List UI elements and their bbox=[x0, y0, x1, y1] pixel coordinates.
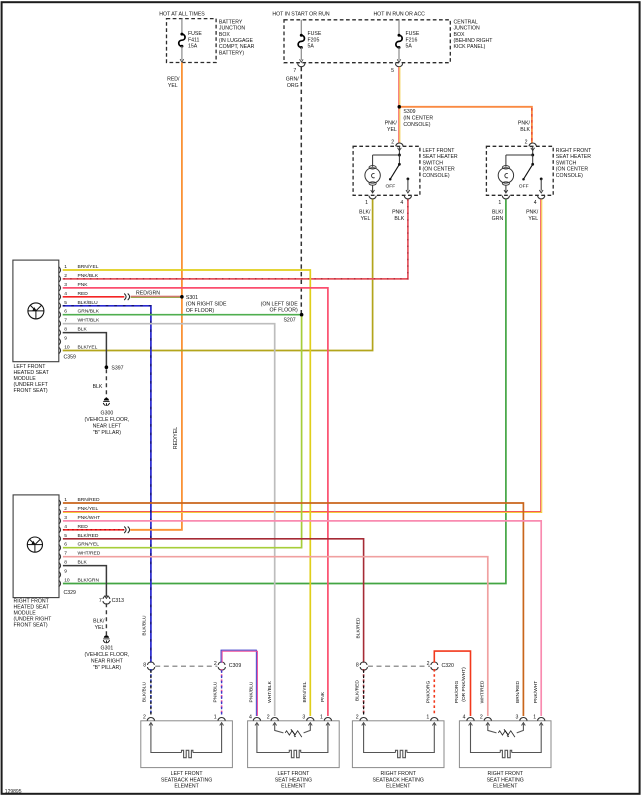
svg-text:7: 7 bbox=[64, 551, 67, 557]
connector C320 pin 2 bbox=[427, 661, 454, 670]
svg-text:S301: S301 bbox=[186, 295, 198, 301]
battery junction box B1 bbox=[159, 11, 254, 62]
svg-text:(IN LUGGAGE: (IN LUGGAGE bbox=[219, 38, 254, 44]
wire RED/GRN (inline connector to S301) bbox=[131, 290, 181, 297]
svg-text:WHT/RED: WHT/RED bbox=[479, 680, 485, 703]
wire RED (right module pin 4) bbox=[63, 527, 130, 534]
svg-text:C313: C313 bbox=[112, 598, 125, 604]
svg-text:7: 7 bbox=[293, 68, 296, 74]
svg-text:5: 5 bbox=[64, 533, 67, 539]
svg-text:GRN: GRN bbox=[492, 216, 504, 222]
svg-text:FUSE: FUSE bbox=[406, 31, 420, 37]
svg-text:F205: F205 bbox=[308, 37, 320, 43]
wire PNK/BLU (C309 pin 2 jumper to LF seat element pin 4) bbox=[221, 650, 257, 716]
wire BLK (S397 to ground G300) bbox=[93, 369, 107, 398]
LF seatback heating element E1 bbox=[141, 714, 233, 789]
wire PNK/BLK (left switch pin 4 to left module pin 2) bbox=[63, 199, 408, 279]
left front heated seat module M1 bbox=[13, 260, 76, 394]
svg-text:BATTERY): BATTERY) bbox=[219, 50, 244, 56]
svg-text:BLK: BLK bbox=[394, 216, 404, 222]
fuse F411 15A bbox=[179, 19, 203, 63]
svg-text:4: 4 bbox=[463, 714, 466, 720]
svg-text:RED: RED bbox=[78, 291, 89, 297]
svg-text:WHT/BLK: WHT/BLK bbox=[78, 318, 100, 324]
svg-text:SWITCH: SWITCH bbox=[423, 160, 444, 166]
svg-text:PNK/: PNK/ bbox=[392, 210, 405, 216]
svg-text:129895: 129895 bbox=[5, 789, 22, 795]
RF seat heating element E4 bbox=[459, 714, 551, 789]
fuse F216 5A bbox=[396, 20, 420, 63]
svg-text:BLK: BLK bbox=[520, 127, 530, 133]
svg-text:RIGHT FRONT: RIGHT FRONT bbox=[381, 771, 417, 777]
wire BRN/RED (right module pin 1 to RF seat element pin 3) bbox=[63, 503, 524, 716]
svg-text:YEL: YEL bbox=[168, 83, 178, 89]
svg-text:PNK/BLU: PNK/BLU bbox=[249, 681, 255, 702]
svg-text:LEFT FRONT: LEFT FRONT bbox=[171, 771, 204, 777]
svg-text:6: 6 bbox=[64, 542, 67, 548]
svg-text:WHT/BLK: WHT/BLK bbox=[267, 680, 273, 702]
svg-text:GRN/BLK: GRN/BLK bbox=[78, 309, 100, 315]
central junction box C1 bbox=[272, 11, 493, 62]
splice S397 bbox=[105, 365, 124, 371]
RF seatback heating element E3 bbox=[352, 714, 444, 789]
right front heated seat module M2 bbox=[13, 495, 76, 629]
svg-text:2: 2 bbox=[143, 714, 146, 720]
svg-text:BLK: BLK bbox=[78, 327, 88, 333]
wire GRN/ORG (fuse F205 to S207) bbox=[286, 67, 302, 314]
svg-text:F411: F411 bbox=[188, 37, 200, 43]
svg-text:RED/GRN: RED/GRN bbox=[136, 290, 160, 296]
wire BLK/RED (C320 pin 8 to RF seatback element pin 2, dashed) bbox=[354, 669, 363, 716]
svg-text:CONSOLE): CONSOLE) bbox=[403, 122, 430, 128]
svg-text:HOT IN RUN OR ACC: HOT IN RUN OR ACC bbox=[373, 11, 425, 17]
svg-text:CONSOLE): CONSOLE) bbox=[423, 173, 450, 179]
wire BLK/BLU (C309 pin 8 to LF seatback element pin 2) bbox=[142, 669, 151, 716]
svg-text:S397: S397 bbox=[111, 366, 123, 372]
svg-text:RIGHT FRONT: RIGHT FRONT bbox=[556, 148, 592, 154]
svg-text:8: 8 bbox=[143, 663, 146, 669]
svg-text:HOT IN START OR RUN: HOT IN START OR RUN bbox=[272, 11, 330, 17]
svg-text:BLK/RED: BLK/RED bbox=[355, 617, 361, 638]
svg-text:YEL: YEL bbox=[361, 216, 371, 222]
svg-text:(ON CENTER: (ON CENTER bbox=[556, 167, 589, 173]
svg-text:ELEMENT: ELEMENT bbox=[174, 784, 199, 790]
svg-text:OFF: OFF bbox=[519, 184, 529, 190]
svg-text:ELEMENT: ELEMENT bbox=[281, 784, 306, 790]
ground G300 bbox=[85, 398, 130, 436]
svg-text:3: 3 bbox=[302, 714, 305, 720]
svg-text:BRN/RED: BRN/RED bbox=[515, 681, 521, 703]
wire BLK/BLU (left module pin 5 to C309 pin 8) bbox=[63, 306, 151, 663]
svg-text:2: 2 bbox=[427, 661, 430, 667]
svg-text:10: 10 bbox=[64, 345, 70, 351]
svg-text:SEAT HEATING: SEAT HEATING bbox=[487, 777, 524, 783]
svg-text:4: 4 bbox=[249, 714, 252, 720]
svg-text:PNK/BLK: PNK/BLK bbox=[78, 273, 99, 279]
svg-text:CENTRAL: CENTRAL bbox=[454, 19, 478, 25]
svg-text:9: 9 bbox=[64, 336, 67, 342]
wire PNK/YEL (right switch pin 4 to right module pin 2) bbox=[63, 199, 542, 512]
svg-text:4: 4 bbox=[64, 524, 67, 530]
svg-text:10: 10 bbox=[64, 578, 70, 584]
svg-text:(IN CENTER: (IN CENTER bbox=[403, 116, 433, 122]
svg-text:BLK: BLK bbox=[78, 560, 88, 566]
svg-text:BLK/YEL: BLK/YEL bbox=[78, 345, 98, 351]
svg-text:8: 8 bbox=[64, 327, 67, 333]
svg-text:PNK/: PNK/ bbox=[385, 121, 398, 127]
svg-text:RIGHT FRONT: RIGHT FRONT bbox=[488, 771, 524, 777]
svg-text:RED/: RED/ bbox=[167, 77, 180, 83]
svg-text:(OR PNK/WHT): (OR PNK/WHT) bbox=[461, 667, 467, 702]
svg-text:2: 2 bbox=[267, 714, 270, 720]
splice S207 bbox=[261, 301, 304, 323]
svg-text:4: 4 bbox=[64, 291, 67, 297]
svg-text:SEATBACK HEATING: SEATBACK HEATING bbox=[372, 777, 423, 783]
svg-text:BLK/BLU: BLK/BLU bbox=[142, 615, 148, 636]
svg-text:G300: G300 bbox=[101, 411, 114, 417]
svg-text:PNK/ORG: PNK/ORG bbox=[454, 681, 460, 704]
svg-text:2: 2 bbox=[64, 273, 67, 279]
svg-text:PNK/: PNK/ bbox=[518, 121, 531, 127]
connector C309 pin 8 bbox=[143, 662, 154, 670]
svg-text:2: 2 bbox=[480, 714, 483, 720]
svg-text:JUNCTION: JUNCTION bbox=[219, 26, 245, 32]
svg-text:4: 4 bbox=[534, 200, 537, 206]
svg-text:CONSOLE): CONSOLE) bbox=[556, 173, 583, 179]
svg-text:6: 6 bbox=[64, 309, 67, 315]
connector C320 dashed face bbox=[368, 665, 430, 667]
svg-text:(BEHIND RIGHT: (BEHIND RIGHT bbox=[454, 38, 494, 44]
connector C320 pin 8 bbox=[356, 662, 367, 670]
svg-text:1: 1 bbox=[214, 714, 217, 720]
svg-text:3: 3 bbox=[516, 714, 519, 720]
svg-text:15A: 15A bbox=[188, 44, 198, 50]
svg-text:2: 2 bbox=[525, 140, 528, 146]
svg-text:BLK/: BLK/ bbox=[359, 210, 371, 216]
svg-text:RED/YEL: RED/YEL bbox=[173, 427, 179, 449]
svg-text:5A: 5A bbox=[308, 44, 315, 50]
wire BLK/YEL (left switch pin 1 to left module pin 10) bbox=[63, 199, 373, 350]
svg-text:OFF: OFF bbox=[386, 184, 396, 190]
svg-text:1: 1 bbox=[320, 714, 323, 720]
svg-text:5: 5 bbox=[391, 68, 394, 74]
svg-text:S309: S309 bbox=[403, 109, 415, 115]
svg-text:2: 2 bbox=[64, 506, 67, 512]
svg-text:BOX: BOX bbox=[454, 32, 465, 38]
ground G301 bbox=[85, 635, 130, 671]
svg-text:4: 4 bbox=[400, 200, 403, 206]
svg-text:S207: S207 bbox=[283, 318, 295, 324]
svg-text:BLK: BLK bbox=[93, 384, 103, 390]
svg-text:C320: C320 bbox=[442, 663, 455, 669]
svg-text:PNK/WHT: PNK/WHT bbox=[78, 515, 101, 521]
wire PNK (left module pin 3 to LF seat element pin 1) bbox=[63, 288, 328, 716]
svg-text:BLK/BLU: BLK/BLU bbox=[78, 300, 99, 306]
svg-text:GRN/YEL: GRN/YEL bbox=[78, 542, 100, 548]
svg-text:7: 7 bbox=[64, 318, 67, 324]
svg-text:OF FLOOR): OF FLOOR) bbox=[186, 308, 215, 314]
svg-text:LEFT FRONT: LEFT FRONT bbox=[277, 771, 310, 777]
wire RED (left module pin 4) bbox=[63, 294, 130, 301]
svg-text:PNK/: PNK/ bbox=[526, 210, 539, 216]
svg-text:KICK PANEL): KICK PANEL) bbox=[454, 44, 486, 50]
svg-text:YEL: YEL bbox=[95, 625, 105, 631]
svg-text:NEAR RIGHT: NEAR RIGHT bbox=[91, 658, 124, 664]
svg-text:PNK/ORG: PNK/ORG bbox=[426, 681, 432, 704]
svg-text:3: 3 bbox=[64, 515, 67, 521]
svg-text:BOX: BOX bbox=[219, 32, 230, 38]
svg-text:2: 2 bbox=[214, 661, 217, 667]
svg-text:SWITCH: SWITCH bbox=[556, 160, 577, 166]
svg-text:JUNCTION: JUNCTION bbox=[454, 26, 480, 32]
svg-text:COMPT, NEAR: COMPT, NEAR bbox=[219, 44, 255, 50]
wire WHT/RED (right module pin 7 to RF seat element pin 2) bbox=[63, 557, 488, 716]
fuse F205 5A bbox=[298, 20, 322, 63]
svg-text:"B" PILLAR): "B" PILLAR) bbox=[93, 430, 121, 436]
connector C313 pin 7 bbox=[99, 596, 124, 605]
svg-text:BLK/GRN: BLK/GRN bbox=[78, 578, 100, 584]
wire BRN/YEL (left module pin 1 to LF seat element pin 3) bbox=[63, 270, 311, 716]
svg-text:(ON RIGHT SIDE: (ON RIGHT SIDE bbox=[186, 302, 227, 308]
svg-text:F216: F216 bbox=[406, 37, 418, 43]
svg-text:YEL: YEL bbox=[528, 216, 538, 222]
svg-text:(ON CENTER: (ON CENTER bbox=[423, 167, 456, 173]
svg-text:2: 2 bbox=[391, 140, 394, 146]
svg-text:(ON LEFT SIDE: (ON LEFT SIDE bbox=[261, 301, 299, 307]
left front seat heater switch SW1 bbox=[353, 140, 458, 206]
svg-text:1: 1 bbox=[64, 497, 67, 503]
svg-text:NEAR LEFT: NEAR LEFT bbox=[93, 423, 122, 429]
svg-text:SEATBACK HEATING: SEATBACK HEATING bbox=[161, 777, 212, 783]
svg-text:5: 5 bbox=[64, 300, 67, 306]
wire GRN/BLK (left module pin 6 to S207) bbox=[63, 314, 301, 316]
svg-text:BLK/BLU: BLK/BLU bbox=[142, 681, 148, 702]
svg-text:C329: C329 bbox=[64, 590, 77, 596]
svg-text:PNK/BLU: PNK/BLU bbox=[212, 681, 218, 702]
svg-text:FUSE: FUSE bbox=[308, 31, 322, 37]
wire BLK/RED (right module pin 5 to C320 pin 8) bbox=[63, 539, 364, 663]
svg-text:SEAT HEATING: SEAT HEATING bbox=[275, 777, 312, 783]
svg-text:SEAT HEATER: SEAT HEATER bbox=[423, 154, 458, 160]
svg-text:(VEHICLE FLOOR,: (VEHICLE FLOOR, bbox=[85, 417, 130, 423]
svg-text:2: 2 bbox=[356, 714, 359, 720]
wire RED/YEL (fuse F411 to S301 to right module pin 4) bbox=[130, 63, 182, 530]
splice S309 bbox=[398, 105, 434, 128]
right front seat heater switch SW2 bbox=[486, 140, 592, 206]
wire PNK/YEL (fuse F216 to S309 to left switch pin 2) bbox=[385, 67, 400, 143]
svg-text:GRN/: GRN/ bbox=[286, 77, 300, 83]
svg-text:1: 1 bbox=[498, 200, 501, 206]
CJB pin 7 connector bbox=[293, 63, 304, 73]
wire PNK/BLK (S309 to right switch pin 2) bbox=[401, 107, 532, 143]
splice S301 bbox=[180, 295, 227, 314]
svg-text:ELEMENT: ELEMENT bbox=[386, 784, 411, 790]
wire BLK/GRN (right switch pin 1 to right module pin 10) bbox=[63, 199, 506, 583]
svg-text:C359: C359 bbox=[64, 354, 77, 360]
svg-text:ORG: ORG bbox=[287, 83, 299, 89]
svg-text:PNK: PNK bbox=[78, 282, 89, 288]
svg-text:BLK/: BLK/ bbox=[492, 210, 504, 216]
svg-text:BLK/: BLK/ bbox=[93, 618, 105, 624]
svg-text:9: 9 bbox=[64, 569, 67, 575]
svg-text:PNK/WHT: PNK/WHT bbox=[533, 681, 539, 704]
svg-text:BRN/YEL: BRN/YEL bbox=[302, 681, 308, 702]
wire WHT/BLK (left module pin 7 to LF seat element pin 2) bbox=[63, 324, 275, 716]
wire BLK/YEL (C313 to ground G301) bbox=[93, 603, 106, 636]
svg-text:ELEMENT: ELEMENT bbox=[493, 784, 518, 790]
svg-text:PNK: PNK bbox=[320, 691, 326, 702]
wire BLK (left module pin 8 to S397) bbox=[63, 333, 107, 366]
connector C309 dashed face bbox=[155, 665, 217, 667]
svg-text:1: 1 bbox=[533, 714, 536, 720]
svg-text:1: 1 bbox=[64, 264, 67, 270]
svg-text:3: 3 bbox=[64, 282, 67, 288]
svg-text:G301: G301 bbox=[101, 646, 114, 652]
svg-text:(VEHICLE FLOOR,: (VEHICLE FLOOR, bbox=[85, 652, 130, 658]
svg-text:OF FLOOR): OF FLOOR) bbox=[269, 308, 298, 314]
svg-text:LEFT FRONT: LEFT FRONT bbox=[423, 148, 456, 154]
wire BLK (right module pin 8 to C313) bbox=[63, 566, 107, 597]
svg-text:BLK/RED: BLK/RED bbox=[354, 680, 360, 701]
svg-text:FRONT SEAT): FRONT SEAT) bbox=[14, 388, 48, 394]
svg-text:RED: RED bbox=[78, 524, 89, 530]
wire RED/YEL stub (inline connector to RED/YEL feed) bbox=[131, 529, 181, 531]
svg-text:8: 8 bbox=[356, 663, 359, 669]
svg-text:1: 1 bbox=[365, 200, 368, 206]
svg-text:SEAT HEATER: SEAT HEATER bbox=[556, 154, 591, 160]
svg-text:1: 1 bbox=[426, 714, 429, 720]
svg-text:FRONT SEAT): FRONT SEAT) bbox=[14, 623, 48, 629]
wire PNK/WHT (right module pin 3 to RF seat element pin 1) bbox=[63, 521, 541, 716]
svg-text:BLK/RED: BLK/RED bbox=[78, 533, 99, 539]
svg-text:BRN/YEL: BRN/YEL bbox=[78, 264, 99, 270]
svg-text:WHT/RED: WHT/RED bbox=[78, 551, 101, 557]
svg-text:"B" PILLAR): "B" PILLAR) bbox=[93, 665, 121, 671]
svg-text:YEL: YEL bbox=[387, 127, 397, 133]
CJB pin 5 connector bbox=[391, 63, 402, 73]
wire GRN/YEL (S207 to right module pin 6) bbox=[63, 316, 302, 547]
connector C309 pin 2 bbox=[214, 661, 241, 670]
svg-text:BRN/RED: BRN/RED bbox=[78, 497, 100, 503]
svg-text:BATTERY: BATTERY bbox=[219, 19, 243, 25]
svg-text:HOT AT ALL TIMES: HOT AT ALL TIMES bbox=[159, 11, 205, 17]
svg-text:5A: 5A bbox=[406, 44, 413, 50]
svg-text:PNK/YEL: PNK/YEL bbox=[78, 506, 99, 512]
LF seat heating element E2 bbox=[248, 714, 340, 789]
wire PNK/BLU (C309 pin 2 to LF seatback element pin 1, dashed) bbox=[212, 669, 221, 716]
svg-text:FUSE: FUSE bbox=[188, 31, 202, 37]
svg-text:C309: C309 bbox=[229, 663, 242, 669]
wire PNK/ORG (C320 pin 2 jumper to RF seat element pin 4) bbox=[434, 651, 470, 716]
wire PNK/ORG (C320 pin 2 to RF seatback element pin 1, dashed) bbox=[426, 669, 435, 716]
svg-text:7: 7 bbox=[99, 598, 102, 604]
svg-text:8: 8 bbox=[64, 560, 67, 566]
